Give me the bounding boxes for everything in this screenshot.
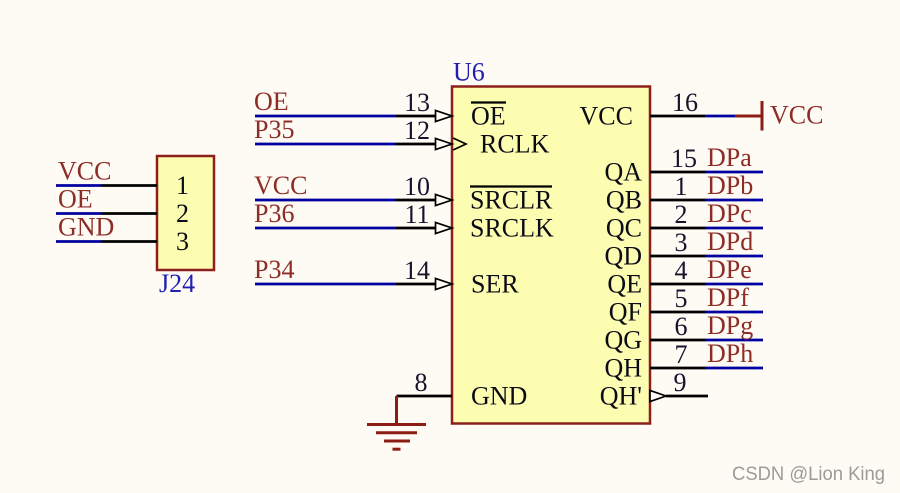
svg-text:DPe: DPe	[707, 255, 752, 284]
U6 pin 11 lead	[396, 227, 436, 230]
svg-text:12: 12	[404, 116, 430, 145]
svg-text:VCC: VCC	[580, 102, 633, 131]
svg-text:7: 7	[675, 340, 688, 369]
svg-text:SER: SER	[471, 270, 519, 299]
svg-text:11: 11	[404, 200, 429, 229]
U6 pin 10 lead	[396, 199, 436, 202]
svg-text:U6: U6	[453, 58, 485, 87]
ground symbol	[367, 396, 426, 449]
U6 pin 16 lead (VCC)	[650, 115, 706, 118]
svg-text:DPf: DPf	[707, 283, 749, 312]
svg-text:DPg: DPg	[707, 311, 753, 340]
svg-text:6: 6	[675, 312, 688, 341]
clock symbol RCLK	[453, 138, 466, 150]
svg-text:OE: OE	[254, 87, 289, 116]
svg-text:P35: P35	[254, 115, 294, 144]
U6 pin 4 lead (QE)	[650, 283, 706, 286]
svg-text:VCC: VCC	[254, 171, 307, 200]
J24 pin 3	[101, 240, 157, 243]
svg-text:13: 13	[404, 88, 430, 117]
svg-text:QB: QB	[606, 186, 642, 215]
U6 pin 8 lead (GND)	[397, 395, 453, 398]
svg-text:1: 1	[675, 172, 688, 201]
wire net P34	[255, 283, 396, 286]
svg-text:9: 9	[674, 368, 687, 397]
svg-text:DPh: DPh	[707, 339, 753, 368]
svg-text:P34: P34	[254, 255, 294, 284]
svg-text:GND: GND	[471, 382, 527, 411]
svg-text:15: 15	[671, 144, 697, 173]
svg-text:4: 4	[675, 256, 688, 285]
wire from QH'	[666, 395, 708, 398]
U6 pin 9 output arrow (QH')	[650, 390, 666, 401]
U6 pin 14 input arrow	[436, 278, 453, 289]
wire net P35	[255, 143, 396, 146]
svg-text:RCLK: RCLK	[480, 130, 550, 159]
wire net OE	[56, 212, 101, 215]
svg-text:1: 1	[176, 171, 189, 200]
U6 pin 5 lead (QF)	[650, 311, 706, 314]
wire net DPa	[706, 171, 764, 174]
J24 pin 2	[101, 212, 157, 215]
wire net DPg	[706, 339, 764, 342]
svg-text:VCC: VCC	[770, 101, 823, 130]
svg-text:SRCLK: SRCLK	[470, 214, 554, 243]
wire net DPe	[706, 283, 764, 286]
svg-text:3: 3	[675, 228, 688, 257]
U6 pin 15 lead (QA)	[650, 171, 706, 174]
svg-text:2: 2	[675, 200, 688, 229]
wire to VCC power	[706, 115, 735, 118]
wire net VCC	[255, 199, 396, 202]
svg-text:10: 10	[404, 172, 430, 201]
svg-text:QD: QD	[604, 242, 642, 271]
svg-text:QG: QG	[604, 326, 642, 355]
svg-text:3: 3	[176, 227, 189, 256]
svg-text:CSDN @Lion King: CSDN @Lion King	[732, 463, 885, 485]
svg-text:J24: J24	[159, 269, 195, 298]
wire net DPb	[706, 199, 764, 202]
svg-text:QE: QE	[607, 270, 642, 299]
U6 pin 13 input arrow	[436, 110, 453, 121]
U6 pin 7 lead (QH)	[650, 367, 706, 370]
svg-text:DPc: DPc	[707, 199, 752, 228]
wire net VCC	[56, 184, 101, 187]
svg-text:OE: OE	[58, 185, 93, 214]
overline for OE	[471, 101, 506, 103]
svg-text:QH: QH	[604, 354, 642, 383]
wire net DPd	[706, 255, 764, 258]
connector J24 body	[157, 156, 214, 270]
svg-text:16: 16	[672, 88, 698, 117]
op IC U6 74HC595 body	[452, 87, 650, 424]
U6 pin 14 lead	[396, 283, 436, 286]
svg-text:QF: QF	[609, 298, 642, 327]
U6 pin 1 lead (QB)	[650, 199, 706, 202]
svg-text:DPa: DPa	[707, 143, 752, 172]
wire net DPh	[706, 367, 764, 370]
wire net P36	[255, 227, 396, 230]
svg-text:OE: OE	[471, 102, 506, 131]
U6 pin 13 lead	[396, 115, 436, 118]
svg-text:SRCLR: SRCLR	[470, 186, 553, 215]
svg-text:DPb: DPb	[707, 171, 753, 200]
U6 pin 11 input arrow	[436, 222, 453, 233]
svg-text:QA: QA	[604, 158, 642, 187]
U6 pin 10 input arrow	[436, 194, 453, 205]
svg-text:5: 5	[675, 284, 688, 313]
svg-text:DPd: DPd	[707, 227, 753, 256]
U6 pin 12 input arrow	[436, 138, 453, 149]
svg-text:14: 14	[404, 256, 430, 285]
svg-text:QH': QH'	[600, 382, 642, 411]
wire net GND	[56, 240, 101, 243]
overline for SRCLR	[470, 185, 552, 187]
svg-text:QC: QC	[606, 214, 642, 243]
U6 pin 6 lead (QG)	[650, 339, 706, 342]
wire net DPf	[706, 311, 764, 314]
svg-text:VCC: VCC	[58, 157, 111, 186]
U6 pin 3 lead (QD)	[650, 255, 706, 258]
J24 pin 1	[101, 184, 157, 187]
svg-text:P36: P36	[254, 199, 294, 228]
U6 pin 12 lead	[396, 143, 436, 146]
svg-text:GND: GND	[58, 213, 114, 242]
wire net OE	[255, 115, 396, 118]
svg-text:8: 8	[415, 368, 428, 397]
wire net DPc	[706, 227, 764, 230]
VCC power bar symbol	[735, 101, 762, 131]
U6 pin 2 lead (QC)	[650, 227, 706, 230]
svg-text:2: 2	[176, 199, 189, 228]
